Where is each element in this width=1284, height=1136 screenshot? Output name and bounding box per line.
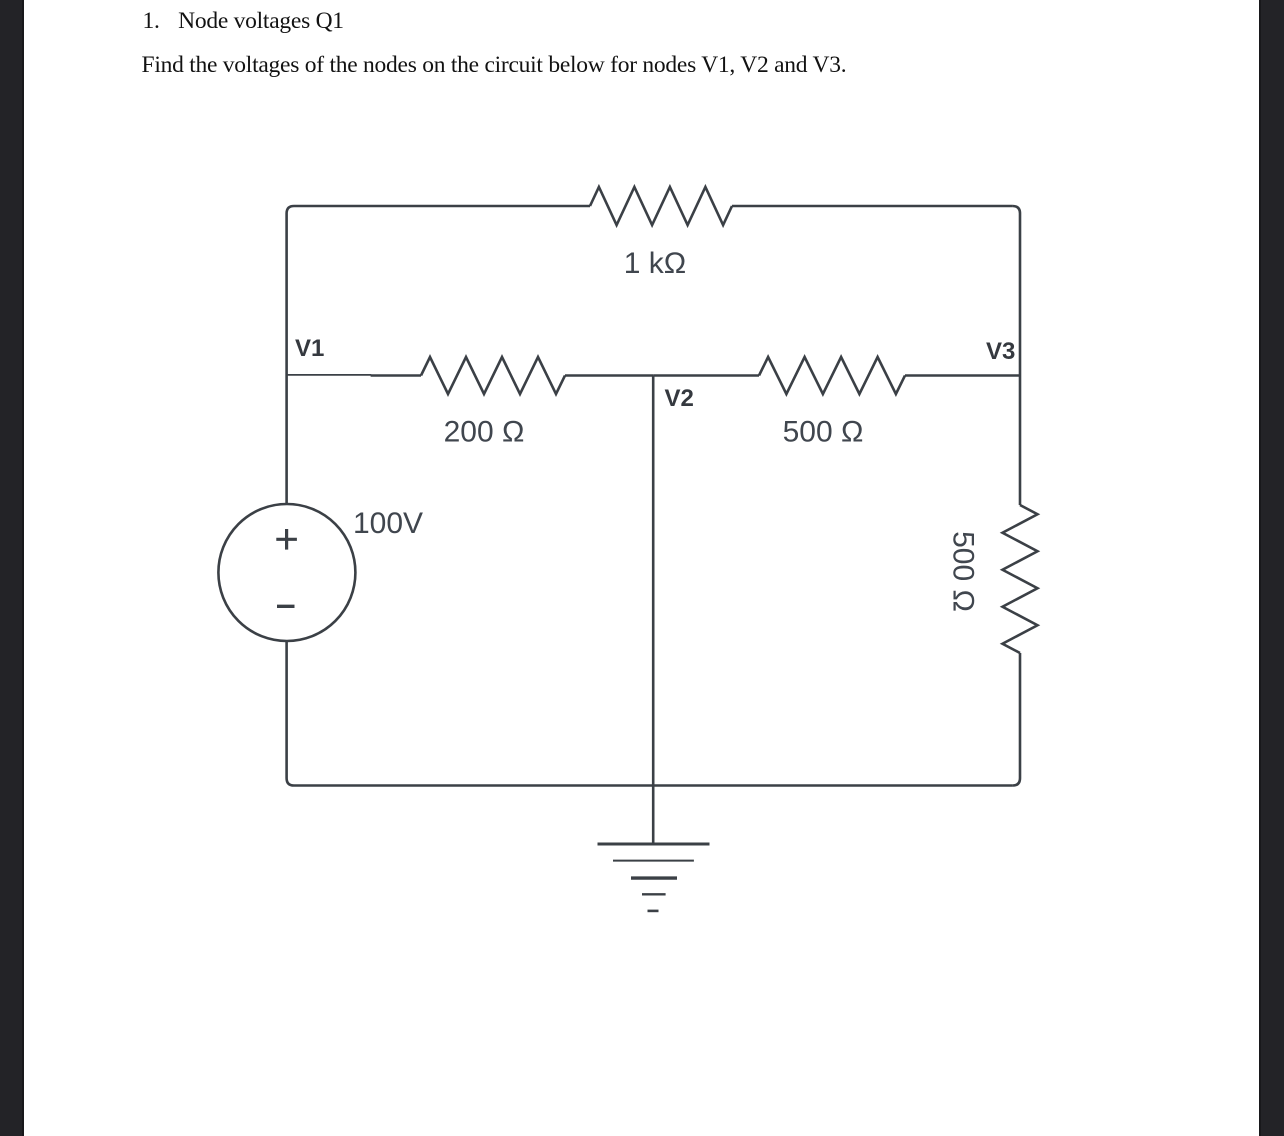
resistor R3 500 Ohm (right, vertical) <box>1003 505 1038 653</box>
wire: middle wire from node V1 to segment join <box>287 374 372 376</box>
svg-text:200 Ω: 200 Ω <box>444 416 525 449</box>
title line 1 <box>143 8 344 35</box>
left dark sidebar <box>0 0 24 1136</box>
right dark sidebar <box>1259 0 1284 1136</box>
voltage source V 100V circle <box>218 504 355 641</box>
svg-text:500 Ω: 500 Ω <box>946 531 979 612</box>
title line 2 <box>142 52 847 79</box>
svg-text:V1: V1 <box>295 335 324 362</box>
wire: top side left segment <box>294 205 590 208</box>
wire: right vertical from V3 junction to resistor R3 top <box>1019 376 1022 506</box>
wire: bottom-left corner up to source bottom <box>287 641 294 786</box>
wire: top-right corner + right vertical down to node V3 junction <box>1013 206 1020 376</box>
svg-text:V2: V2 <box>665 385 694 412</box>
svg-text:V3: V3 <box>986 338 1015 365</box>
svg-text:100V: 100V <box>353 507 423 540</box>
wire: right vertical from resistor R3 bottom to bottom-right corner <box>1013 653 1020 786</box>
wire: top side right segment <box>732 205 1013 208</box>
ground symbol <box>598 844 710 911</box>
svg-text:1 kΩ: 1 kΩ <box>624 247 686 280</box>
resistor R1 1 kOhm (top) <box>590 187 732 225</box>
wire: bottom side <box>294 784 1013 787</box>
resistor R4 500 Ohm (middle-right) <box>759 357 905 394</box>
wire: middle wire from resistor R4 right to right vertical (node V3) <box>905 374 1020 377</box>
voltage source plus terminal <box>276 529 297 550</box>
wire: middle wire from segment join to resistor R2 left <box>371 374 421 377</box>
voltage source minus terminal <box>277 605 295 608</box>
wire: node V2 vertical down to ground <box>652 376 655 845</box>
resistor R2 200 Ohm (middle-left) <box>421 357 565 394</box>
wire: outer loop top-left corner + left vertical down to source top <box>287 206 294 504</box>
svg-text:500 Ω: 500 Ω <box>783 416 864 449</box>
wire: middle wire from resistor R2 right to node V2 <box>565 374 653 377</box>
wire: middle wire from node V2 to resistor R4 left <box>653 374 759 377</box>
